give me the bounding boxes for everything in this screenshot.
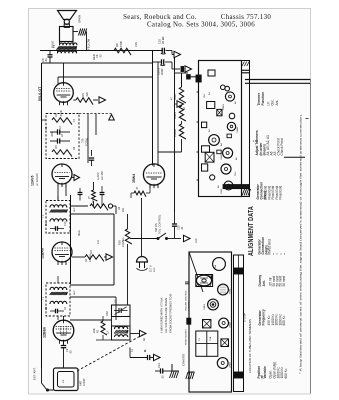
svg-text:* A loop fashioned of several: * A loop fashioned of several turns of w…	[299, 114, 303, 374]
svg-text:Variable: Variable	[263, 366, 267, 378]
svg-text:R9: R9	[81, 93, 85, 97]
svg-text:12BA6: 12BA6	[229, 321, 232, 328]
svg-text:C10-2: C10-2	[157, 67, 161, 75]
svg-text:220: 220	[85, 92, 89, 97]
svg-text:50L6-GT: 50L6-GT	[38, 86, 42, 101]
svg-text:12AV6: 12AV6	[220, 153, 223, 160]
svg-text:50L6: 50L6	[173, 94, 177, 100]
svg-text:MEG: MEG	[78, 230, 81, 236]
svg-text:& SWITCH: & SWITCH	[189, 300, 191, 311]
svg-text:35W4: 35W4	[230, 288, 232, 294]
svg-text:Final Grid: Final Grid	[279, 185, 283, 199]
svg-text:470K: 470K	[59, 110, 63, 116]
svg-text:600 Kc: 600 Kc	[282, 315, 286, 325]
svg-text:R10: R10	[195, 238, 198, 243]
svg-text:35W4: 35W4	[221, 188, 223, 194]
svg-text:Sears, Roebuck and Co.: Sears, Roebuck and Co.	[123, 14, 197, 21]
svg-text:50 mmf: 50 mmf	[282, 276, 286, 287]
svg-text:† MEASURED WITH V.T.V.M.: † MEASURED WITH V.T.V.M.	[160, 297, 164, 333]
svg-text:LOOP: LOOP	[82, 378, 86, 386]
svg-text:750: 750	[81, 138, 85, 143]
svg-text:Ant.: Ant.	[262, 280, 266, 286]
svg-text:OSC: OSC	[106, 311, 109, 316]
svg-text:Frequency: Frequency	[261, 309, 265, 325]
svg-text:12BE6: 12BE6	[204, 303, 206, 310]
svg-text:10MEG: 10MEG	[89, 254, 92, 262]
svg-text:470K: 470K	[119, 41, 123, 47]
svg-text:C6: C6	[44, 126, 48, 130]
svg-text:117 V.: 117 V.	[149, 265, 153, 272]
svg-text:C9: C9	[95, 54, 99, 58]
svg-text:12BE6: 12BE6	[43, 327, 47, 338]
svg-text:Ant.: Ant.	[275, 100, 279, 106]
svg-text:3.3MEG: 3.3MEG	[121, 237, 125, 247]
svg-text:R6: R6	[54, 113, 58, 117]
svg-text:Catalog No. Sets 3004, 3005,: Catalog No. Sets 3004, 3005, 3006	[147, 22, 255, 29]
svg-text:C12: C12	[45, 221, 48, 226]
svg-text:TOTAL: TOTAL	[85, 137, 89, 146]
svg-text:FROM SOCKET PRONGS TO B-: FROM SOCKET PRONGS TO B-	[169, 293, 173, 333]
svg-text:12BA6: 12BA6	[173, 129, 177, 137]
svg-text:20 MF: 20 MF	[161, 36, 165, 44]
svg-text:C15: C15	[177, 225, 181, 230]
svg-text:.004: .004	[51, 132, 54, 137]
svg-text:.02: .02	[99, 54, 103, 58]
svg-text:VOL. CONTROL: VOL. CONTROL	[158, 214, 162, 234]
svg-text:.05: .05	[161, 375, 165, 379]
svg-text:R5: R5	[54, 145, 58, 149]
svg-text:12BA6: 12BA6	[41, 248, 45, 259]
svg-text:R16: R16	[118, 240, 122, 245]
svg-text:CHASSIS: CHASSIS	[182, 354, 186, 366]
svg-text:35W4: 35W4	[132, 174, 136, 183]
svg-text:17 LOOP: 17 LOOP	[245, 312, 247, 322]
svg-text:22K: 22K	[92, 328, 96, 333]
svg-text:C1A: C1A	[209, 336, 212, 341]
svg-text:LOCATION OF TUBES AND TRIMMERS: LOCATION OF TUBES AND TRIMMERS	[248, 319, 252, 373]
svg-text:B-: B-	[143, 349, 147, 352]
svg-text:AC-150: AC-150	[100, 171, 104, 180]
svg-text:C2: C2	[65, 348, 69, 352]
svg-text:C13: C13	[64, 221, 67, 226]
svg-text:Chassis 757.130: Chassis 757.130	[221, 14, 272, 21]
svg-text:SEC: SEC	[74, 290, 76, 295]
svg-text:12BA6: 12BA6	[236, 126, 239, 133]
svg-text:SPKR: SPKR	[78, 14, 82, 23]
svg-text:T2: T2	[41, 214, 45, 218]
svg-text:or 12AU6: or 12AU6	[35, 173, 39, 186]
svg-text:C19A: C19A	[214, 264, 217, 270]
svg-text:.05: .05	[69, 350, 73, 354]
svg-text:.01: .01	[180, 226, 184, 230]
svg-text:ANT: ANT	[79, 380, 83, 386]
svg-text:12BE6: 12BE6	[223, 103, 225, 110]
svg-text:•: •	[283, 253, 287, 254]
svg-text:R3: R3	[91, 199, 95, 203]
svg-text:YELLOW: YELLOW	[87, 38, 91, 50]
svg-text:C14: C14	[157, 363, 161, 368]
svg-text:A.C.: A.C.	[152, 267, 156, 272]
svg-text:EXT. ANT.: EXT. ANT.	[33, 367, 37, 380]
svg-text:22K: 22K	[122, 207, 125, 212]
svg-text:Function: Function	[261, 92, 265, 106]
svg-text:C10: C10	[158, 39, 162, 44]
svg-text:30MF: 30MF	[160, 68, 164, 75]
svg-text:C3: C3	[114, 299, 118, 303]
svg-text:ALL VOLTAGES ARE TAKEN: ALL VOLTAGES ARE TAKEN	[164, 298, 168, 333]
svg-text:VOLUME CONTROL: VOLUME CONTROL	[186, 290, 188, 311]
svg-text:Check Point: Check Point	[280, 138, 284, 155]
svg-text:A-AVC: A-AVC	[96, 172, 100, 180]
svg-text:C8: C8	[41, 58, 45, 62]
svg-text:Mixed Grid: Mixed Grid	[268, 239, 272, 255]
svg-text:12AV6: 12AV6	[31, 176, 35, 186]
svg-text:SEC: SEC	[74, 207, 76, 212]
svg-text:C11: C11	[97, 239, 100, 244]
svg-text:SW ON: SW ON	[154, 223, 158, 232]
svg-text:R1: R1	[96, 329, 100, 333]
svg-text:ALIGNMENT DATA: ALIGNMENT DATA	[248, 206, 255, 256]
svg-text:L1: L1	[61, 379, 65, 383]
svg-text:OSC: OSC	[204, 93, 206, 98]
svg-text:35W4: 35W4	[173, 112, 177, 119]
svg-text:FROM SOCKET: FROM SOCKET	[186, 328, 188, 345]
svg-text:C16: C16	[134, 42, 138, 47]
svg-text:600 Kc: 600 Kc	[284, 368, 288, 378]
svg-text:C7: C7	[58, 125, 62, 129]
svg-text:R8: R8	[115, 43, 119, 47]
svg-text:12AV6: 12AV6	[229, 361, 232, 368]
svg-text:R2: R2	[89, 250, 93, 254]
svg-text:T1: T1	[41, 296, 45, 300]
